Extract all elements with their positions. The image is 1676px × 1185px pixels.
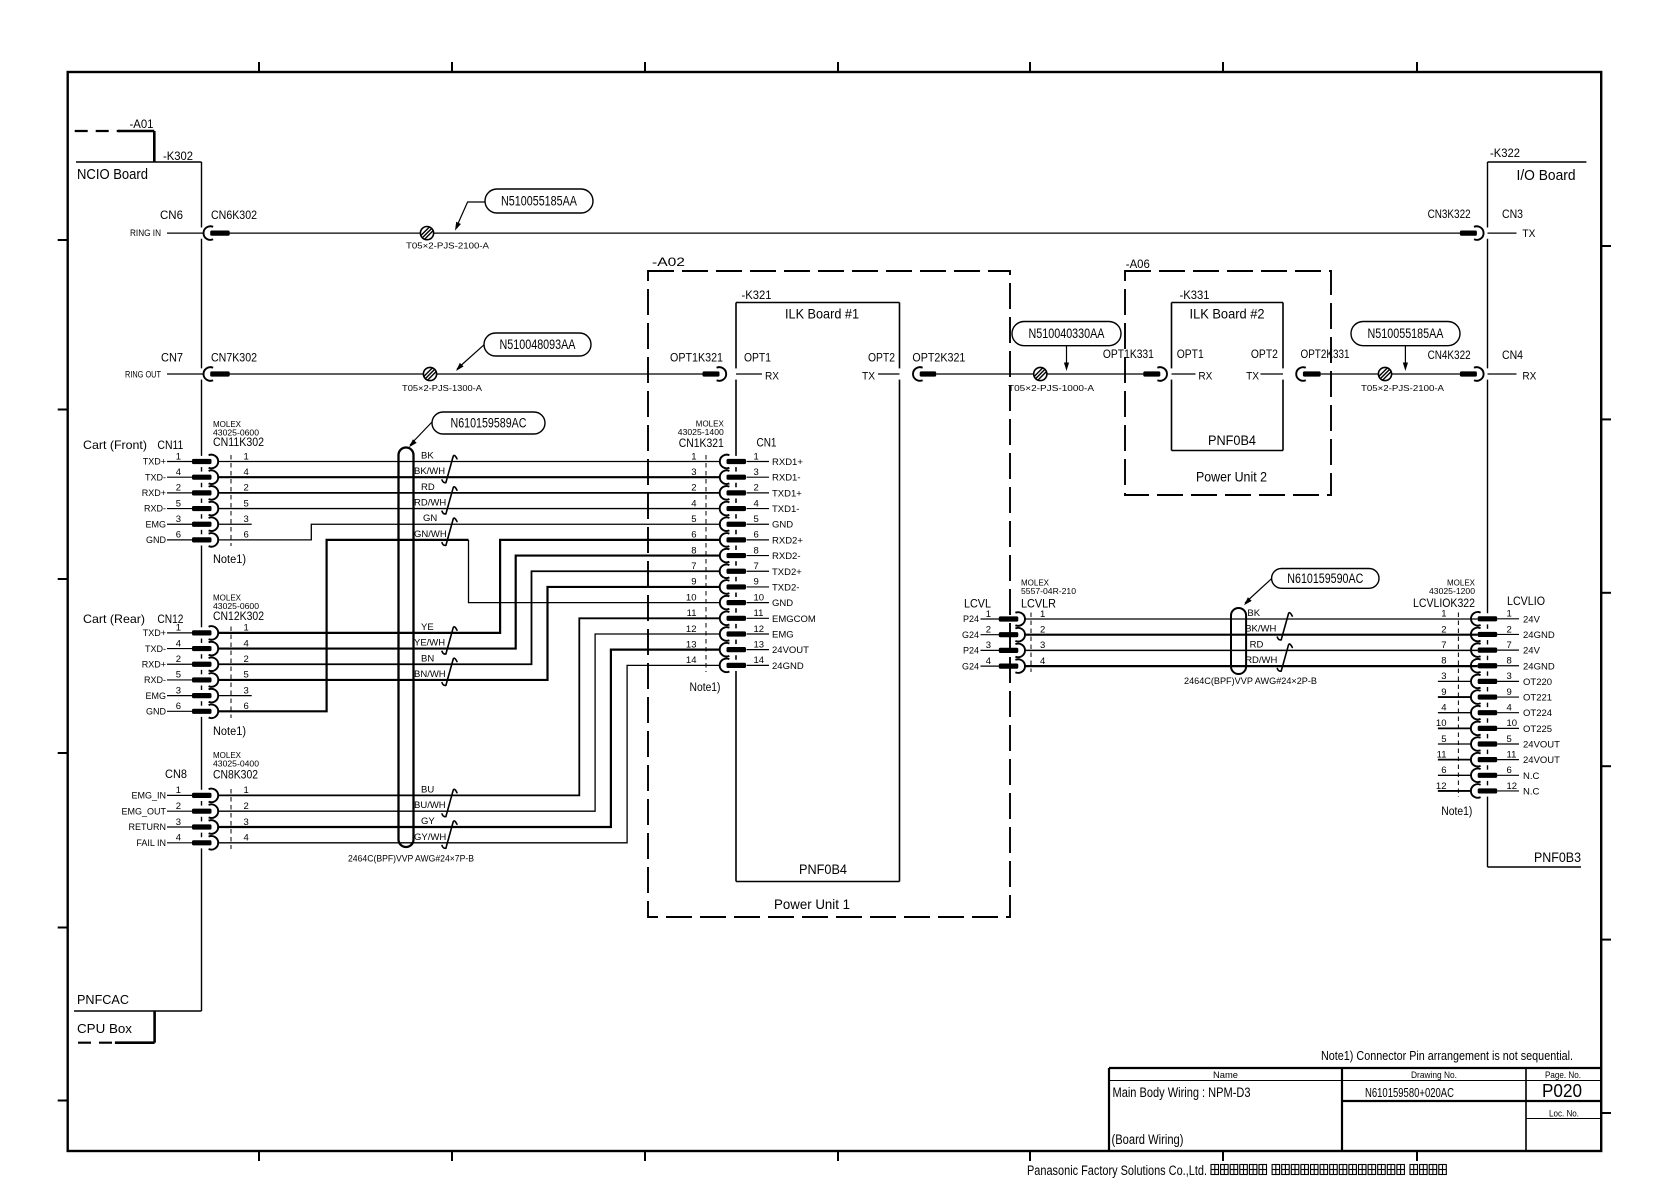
wire CN12-1 YE to CN1-6 — [218, 540, 720, 633]
svg-text:N510040330AA: N510040330AA — [1029, 326, 1105, 341]
svg-text:14: 14 — [754, 655, 765, 666]
svg-text:8: 8 — [1441, 656, 1446, 667]
connector CN1K321 / CN1 — [678, 420, 816, 695]
svg-text:43025-0600: 43025-0600 — [213, 602, 260, 611]
wire CN8-3 GY to CN1-13 — [218, 650, 720, 827]
svg-text:-K321: -K321 — [742, 290, 772, 302]
svg-text:1: 1 — [754, 451, 759, 462]
svg-text:CPU Box: CPU Box — [77, 1021, 133, 1036]
svg-text:11: 11 — [754, 608, 764, 619]
svg-text:CN3: CN3 — [1502, 207, 1523, 221]
svg-text:RX: RX — [1198, 371, 1213, 383]
svg-text:24GND: 24GND — [1523, 661, 1555, 672]
svg-text:RD: RD — [421, 482, 435, 493]
svg-text:3: 3 — [1441, 671, 1446, 682]
svg-text:BU/WH: BU/WH — [414, 800, 446, 811]
ferrite core T05x2-PJS-1000-A — [1008, 367, 1094, 393]
ILK2 OPT1 RX pin — [1172, 347, 1214, 383]
connector OPT1K331 — [1103, 347, 1167, 381]
wire LCVL-4 RD/WH — [1025, 655, 1478, 666]
svg-text:Drawing No.: Drawing No. — [1411, 1070, 1457, 1080]
wire CN11-4 BK/WH — [218, 466, 720, 477]
svg-text:EMG: EMG — [772, 629, 794, 640]
svg-text:TXD-: TXD- — [145, 472, 166, 482]
svg-text:6: 6 — [244, 530, 249, 541]
svg-text:CN11: CN11 — [157, 438, 183, 452]
svg-text:2: 2 — [754, 483, 759, 494]
connector CN7K302 — [125, 351, 257, 381]
wire ILK2 TX to CN4 — [1321, 373, 1517, 375]
wire LCVL-1 BK — [1025, 608, 1478, 619]
svg-text:BU: BU — [421, 784, 434, 795]
svg-text:PNF0B4: PNF0B4 — [799, 861, 847, 877]
wire RING OUT : CN7 to ILK1 OPT1 — [167, 373, 703, 375]
svg-text:OPT2: OPT2 — [1251, 347, 1278, 361]
svg-text:24V: 24V — [1523, 646, 1541, 657]
Power Unit 1 (-A02) dashed box — [648, 257, 1010, 917]
svg-text:T05×2-PJS-1000-A: T05×2-PJS-1000-A — [1008, 383, 1094, 393]
svg-text:Main Body Wiring : NPM-D3: Main Body Wiring : NPM-D3 — [1113, 1085, 1251, 1100]
svg-text:N510055185AA: N510055185AA — [1368, 326, 1444, 341]
svg-text:-K331: -K331 — [1180, 290, 1210, 302]
svg-text:Cart (Rear): Cart (Rear) — [83, 612, 145, 626]
cable label N610159589AC with leader — [409, 412, 545, 447]
svg-text:5: 5 — [244, 498, 249, 509]
svg-text:3: 3 — [1040, 640, 1045, 651]
svg-text:12: 12 — [686, 624, 697, 635]
svg-text:EMGCOM: EMGCOM — [772, 614, 816, 625]
svg-text:1: 1 — [1507, 609, 1512, 620]
svg-text:43025-1400: 43025-1400 — [678, 428, 725, 437]
cable label N510055185AA (right) with leader — [1351, 322, 1460, 372]
svg-text:2: 2 — [986, 625, 991, 636]
svg-text:4: 4 — [244, 833, 249, 844]
svg-text:P24: P24 — [963, 646, 979, 656]
svg-text:P020: P020 — [1542, 1081, 1582, 1101]
svg-text:Page. No.: Page. No. — [1545, 1070, 1581, 1080]
svg-text:EMG: EMG — [145, 519, 166, 529]
svg-text:2464C(BPF)VVP AWG#24×2P-B: 2464C(BPF)VVP AWG#24×2P-B — [1184, 676, 1317, 686]
twisted-pair marks (left cable) — [442, 455, 457, 848]
svg-text:GY/WH: GY/WH — [414, 832, 446, 843]
svg-text:OT225: OT225 — [1523, 724, 1552, 735]
svg-text:13: 13 — [754, 639, 765, 650]
svg-text:2: 2 — [1441, 624, 1446, 635]
svg-text:TXD+: TXD+ — [143, 457, 166, 467]
svg-text:CN7: CN7 — [161, 351, 183, 365]
connector OPT2K321 — [912, 351, 965, 381]
svg-text:9: 9 — [1507, 687, 1512, 698]
svg-text:6: 6 — [1507, 765, 1512, 776]
svg-text:7: 7 — [1507, 640, 1512, 651]
svg-text:TXD+: TXD+ — [143, 628, 166, 638]
svg-text:5557-04R-210: 5557-04R-210 — [1021, 587, 1077, 596]
note text — [1321, 1049, 1573, 1063]
svg-text:RX: RX — [1522, 371, 1537, 383]
svg-text:2: 2 — [1507, 624, 1512, 635]
svg-text:9: 9 — [1441, 687, 1446, 698]
svg-text:TX: TX — [1522, 228, 1536, 240]
svg-text:RD/WH: RD/WH — [414, 498, 446, 509]
wire CN12-3 EMG stub — [218, 695, 252, 697]
connector CN8 — [121, 751, 259, 850]
svg-text:P24: P24 — [963, 614, 979, 624]
svg-text:LCVLIO: LCVLIO — [1507, 594, 1545, 608]
svg-text:RXD-: RXD- — [144, 504, 166, 514]
wire CN8-2 BU/WH to CN1-12 — [218, 634, 720, 811]
svg-text:CN8K302: CN8K302 — [213, 770, 258, 782]
connector OPT2K331 — [1296, 347, 1350, 381]
svg-text:OPT1: OPT1 — [1177, 347, 1204, 361]
svg-text:CN4: CN4 — [1502, 348, 1523, 362]
svg-text:3: 3 — [244, 514, 249, 525]
wire CN8-1 BU to CN1-11 — [218, 618, 720, 795]
svg-text:ILK Board #1: ILK Board #1 — [785, 306, 859, 322]
cable bundle 2464C 2P capsule — [1184, 608, 1317, 686]
svg-text:2464C(BPF)VVP AWG#24×7P-B: 2464C(BPF)VVP AWG#24×7P-B — [348, 854, 474, 864]
svg-text:2: 2 — [176, 654, 181, 665]
svg-text:OPT2K331: OPT2K331 — [1301, 347, 1350, 361]
svg-text:GN: GN — [423, 513, 437, 524]
svg-text:T05×2-PJS-1300-A: T05×2-PJS-1300-A — [402, 383, 482, 393]
ferrite core T05x2-PJS-1300-A — [402, 367, 482, 393]
svg-text:4: 4 — [176, 833, 181, 844]
svg-text:RXD+: RXD+ — [142, 488, 166, 498]
wire LCVL-2 BK/WH — [1025, 624, 1478, 635]
cable label N610159590AC with leader — [1244, 569, 1379, 606]
connector LCVL / LCVLR — [962, 579, 1077, 673]
svg-text:RETURN: RETURN — [129, 822, 167, 832]
svg-text:6: 6 — [176, 701, 181, 712]
CPU Box (-A01) — [74, 119, 155, 1043]
svg-text:PNFCAC: PNFCAC — [77, 992, 129, 1007]
svg-text:10: 10 — [1507, 718, 1518, 729]
svg-text:4: 4 — [176, 638, 181, 649]
svg-text:5: 5 — [1507, 734, 1512, 745]
svg-text:1: 1 — [176, 785, 181, 796]
svg-text:TXD2+: TXD2+ — [772, 567, 802, 578]
svg-text:-A06: -A06 — [1126, 259, 1150, 271]
svg-text:5: 5 — [1441, 734, 1446, 745]
svg-text:3: 3 — [176, 685, 181, 696]
svg-text:N610159589AC: N610159589AC — [451, 416, 527, 431]
svg-text:RXD-: RXD- — [144, 675, 166, 685]
svg-text:10: 10 — [1436, 718, 1447, 729]
svg-text:TXD2-: TXD2- — [772, 582, 799, 593]
wire LCVL-3 RD — [1025, 639, 1478, 650]
svg-text:ILK Board #2: ILK Board #2 — [1190, 306, 1265, 322]
svg-text:Power Unit 2: Power Unit 2 — [1196, 469, 1267, 485]
svg-text:-K302: -K302 — [163, 151, 193, 163]
svg-text:2: 2 — [176, 483, 181, 494]
ILK2 OPT2 TX pin — [1246, 347, 1283, 383]
svg-text:4: 4 — [986, 656, 991, 667]
svg-text:Cart (Front): Cart (Front) — [83, 438, 147, 452]
svg-text:Name: Name — [1213, 1070, 1238, 1080]
svg-text:GND: GND — [772, 520, 793, 531]
svg-text:CN6: CN6 — [160, 208, 183, 222]
svg-text:1: 1 — [986, 609, 991, 620]
svg-text:RD: RD — [1250, 639, 1264, 650]
svg-text:10: 10 — [686, 592, 697, 603]
svg-text:5: 5 — [754, 514, 759, 525]
svg-text:5: 5 — [176, 498, 181, 509]
svg-text:TXD1+: TXD1+ — [772, 488, 802, 499]
board ILK Board #1 (-K321) — [736, 290, 900, 882]
connector CN12 (Cart Rear) — [83, 594, 264, 739]
connector CN4K322 — [1428, 348, 1537, 383]
svg-text:11: 11 — [1507, 749, 1517, 760]
svg-text:EMG_OUT: EMG_OUT — [121, 806, 166, 816]
svg-text:OPT1K321: OPT1K321 — [670, 351, 723, 365]
svg-text:N610159580+020AC: N610159580+020AC — [1365, 1086, 1454, 1100]
svg-text:10: 10 — [754, 592, 765, 603]
wire CN12-2 BN to CN1-7 — [218, 571, 720, 664]
wire RING IN : CN6 to CN3 — [167, 232, 1517, 234]
svg-text:5: 5 — [176, 670, 181, 681]
ILK1 OPT2 TX pin — [862, 351, 900, 383]
svg-text:Note1): Note1) — [1441, 806, 1472, 818]
svg-text:OT224: OT224 — [1523, 708, 1552, 719]
board NCIO (-K302) — [74, 151, 202, 1011]
svg-text:(Board Wiring): (Board Wiring) — [1112, 1132, 1184, 1147]
wire CN11-5 RD/WH — [218, 498, 720, 509]
svg-text:3: 3 — [986, 640, 991, 651]
wire CN8-4 GY/WH to CN1-14 — [218, 665, 720, 842]
wire CN12-4 YE/WH to CN1-8 — [218, 556, 720, 649]
svg-text:5: 5 — [691, 514, 696, 525]
ILK1 OPT1 RX pin — [736, 351, 780, 383]
svg-text:1: 1 — [176, 451, 181, 462]
svg-text:RXD2-: RXD2- — [772, 551, 801, 562]
cable label N510040330AA with leader — [1012, 322, 1121, 372]
svg-text:PNF0B4: PNF0B4 — [1208, 432, 1256, 448]
svg-text:YE/WH: YE/WH — [414, 638, 445, 649]
svg-text:24VOUT: 24VOUT — [1523, 740, 1560, 751]
svg-text:43025-1200: 43025-1200 — [1429, 587, 1476, 596]
svg-text:NCIO Board: NCIO Board — [77, 167, 148, 183]
twisted-pair marks (right cable) — [1277, 613, 1292, 672]
svg-text:8: 8 — [754, 545, 759, 556]
wire CN12-6 GND via GN/WH to CN1-10 — [218, 529, 720, 711]
svg-text:6: 6 — [176, 530, 181, 541]
svg-text:RXD2+: RXD2+ — [772, 535, 803, 546]
svg-text:CN1: CN1 — [757, 436, 777, 450]
svg-text:3: 3 — [244, 685, 249, 696]
connector CN11 (Cart Front) — [83, 420, 264, 566]
svg-text:CN1K321: CN1K321 — [679, 438, 724, 450]
svg-text:4: 4 — [754, 498, 759, 509]
svg-text:OPT1K331: OPT1K331 — [1103, 347, 1154, 361]
svg-text:G24: G24 — [962, 630, 979, 640]
connector LCVLIOK322 / LCVLIO — [1413, 579, 1560, 819]
svg-text:6: 6 — [754, 530, 759, 541]
svg-text:9: 9 — [754, 577, 759, 588]
svg-text:12: 12 — [754, 624, 765, 635]
wire CN11-1 BK — [218, 451, 720, 462]
svg-text:EMG: EMG — [145, 691, 166, 701]
connector CN6K302 — [130, 208, 257, 240]
wire CN11-3 EMG stub — [218, 523, 252, 525]
svg-text:2: 2 — [176, 801, 181, 812]
cable bundle 2464C 7P capsule — [348, 448, 474, 864]
wire CN11-6 GND to CN1-5 GN — [218, 513, 720, 540]
svg-text:RING OUT: RING OUT — [125, 370, 161, 380]
svg-text:N610159590AC: N610159590AC — [1287, 571, 1363, 586]
connector OPT1K321 — [670, 351, 726, 381]
svg-text:TXD1-: TXD1- — [772, 504, 799, 515]
svg-text:1: 1 — [1441, 609, 1446, 620]
svg-text:14: 14 — [686, 655, 697, 666]
svg-text:4: 4 — [691, 498, 696, 509]
svg-text:CN7K302: CN7K302 — [211, 351, 257, 365]
svg-text:7: 7 — [1441, 640, 1446, 651]
Power Unit 2 (-A06) dashed box — [1125, 259, 1331, 495]
svg-text:Note1): Note1) — [690, 682, 721, 694]
svg-text:PNF0B3: PNF0B3 — [1534, 850, 1581, 865]
svg-text:1: 1 — [244, 451, 249, 462]
svg-text:OPT2K321: OPT2K321 — [912, 351, 965, 365]
svg-text:Note1): Note1) — [213, 554, 246, 566]
svg-text:YE: YE — [421, 622, 434, 633]
svg-text:-K322: -K322 — [1490, 148, 1520, 160]
svg-text:Note1): Note1) — [213, 726, 246, 738]
cable label N510055185AA (top) with leader — [455, 189, 593, 231]
svg-text:3: 3 — [754, 467, 759, 478]
svg-text:Loc. No.: Loc. No. — [1549, 1109, 1579, 1119]
svg-text:-A01: -A01 — [130, 119, 154, 131]
svg-text:Panasonic Factory Solutions Co: Panasonic Factory Solutions Co.,Ltd. — [1027, 1163, 1207, 1178]
svg-text:CN3K322: CN3K322 — [1428, 207, 1471, 221]
svg-text:6: 6 — [1441, 765, 1446, 776]
svg-text:GN/WH: GN/WH — [414, 529, 447, 540]
svg-text:GY: GY — [421, 816, 435, 827]
svg-text:CN8: CN8 — [165, 767, 187, 781]
svg-text:RXD1-: RXD1- — [772, 473, 801, 484]
svg-text:24VOUT: 24VOUT — [1523, 755, 1560, 766]
svg-text:T05×2-PJS-2100-A: T05×2-PJS-2100-A — [406, 241, 489, 251]
svg-text:G24: G24 — [962, 661, 979, 671]
svg-text:24VOUT: 24VOUT — [772, 645, 809, 656]
svg-text:OT220: OT220 — [1523, 677, 1552, 688]
svg-text:CN4K322: CN4K322 — [1428, 348, 1471, 362]
svg-text:43025-0400: 43025-0400 — [213, 760, 260, 769]
svg-text:RXD1+: RXD1+ — [772, 457, 803, 468]
svg-text:BN: BN — [421, 653, 434, 664]
svg-text:8: 8 — [1507, 656, 1512, 667]
svg-text:BN/WH: BN/WH — [414, 669, 446, 680]
svg-text:RXD+: RXD+ — [142, 659, 166, 669]
svg-text:BK/WH: BK/WH — [414, 466, 445, 477]
svg-text:Note1) Connector Pin arrangeme: Note1) Connector Pin arrangement is not … — [1321, 1049, 1573, 1063]
svg-text:CN6K302: CN6K302 — [211, 208, 257, 222]
ferrite core T05x2-PJS-2100-A (right) — [1361, 367, 1444, 393]
svg-text:1: 1 — [691, 451, 696, 462]
svg-text:TX: TX — [1246, 371, 1260, 383]
title block — [1109, 1068, 1601, 1151]
svg-text:EMG_IN: EMG_IN — [131, 791, 166, 801]
svg-text:7: 7 — [754, 561, 759, 572]
svg-text:4: 4 — [1507, 703, 1512, 714]
svg-text:N510048093AA: N510048093AA — [500, 337, 576, 352]
svg-text:N.C: N.C — [1523, 771, 1540, 782]
svg-text:3: 3 — [176, 817, 181, 828]
svg-text:RING IN: RING IN — [130, 228, 161, 238]
svg-text:1: 1 — [176, 623, 181, 634]
svg-text:RX: RX — [765, 371, 780, 383]
svg-text:-A02: -A02 — [652, 257, 685, 269]
svg-text:T05×2-PJS-2100-A: T05×2-PJS-2100-A — [1361, 383, 1444, 393]
wire CN12-5 BN/WH to CN1-9 — [218, 587, 720, 680]
svg-text:CN11K302: CN11K302 — [213, 437, 264, 449]
svg-text:N.C: N.C — [1523, 786, 1540, 797]
svg-text:12: 12 — [1436, 781, 1447, 792]
svg-text:3: 3 — [1507, 671, 1512, 682]
svg-text:GND: GND — [146, 535, 167, 545]
svg-text:24V: 24V — [1523, 614, 1541, 625]
svg-text:OPT2: OPT2 — [868, 351, 895, 365]
svg-text:RD/WH: RD/WH — [1245, 655, 1277, 666]
svg-text:TXD-: TXD- — [145, 644, 166, 654]
svg-text:12: 12 — [1507, 781, 1518, 792]
svg-text:LCVLR: LCVLR — [1021, 599, 1056, 611]
svg-text:24GND: 24GND — [772, 661, 804, 672]
board ILK Board #2 (-K331) — [1172, 290, 1284, 451]
svg-text:GND: GND — [772, 598, 793, 609]
svg-text:BK/WH: BK/WH — [1245, 624, 1276, 635]
wire ILK1 TX to ILK2 RX — [936, 373, 1143, 375]
svg-text:4: 4 — [176, 467, 181, 478]
svg-text:I/O Board: I/O Board — [1517, 168, 1576, 184]
wire CN11-2 RD — [218, 482, 720, 493]
svg-text:3: 3 — [176, 514, 181, 525]
svg-text:BK: BK — [1247, 608, 1260, 619]
svg-text:2: 2 — [244, 801, 249, 812]
connector CN3K322 — [1428, 207, 1536, 240]
cable label N510048093AA with leader — [456, 333, 591, 371]
svg-text:1: 1 — [1040, 609, 1045, 620]
svg-text:CN12K302: CN12K302 — [213, 611, 264, 623]
svg-text:TX: TX — [862, 371, 876, 383]
ferrite core T05x2-PJS-2100-A (left) — [406, 227, 489, 251]
svg-text:GND: GND — [146, 707, 167, 717]
svg-text:FAIL IN: FAIL IN — [136, 838, 166, 848]
svg-text:24GND: 24GND — [1523, 630, 1555, 641]
svg-text:OT221: OT221 — [1523, 693, 1552, 704]
svg-text:OPT1: OPT1 — [744, 351, 771, 365]
svg-text:N510055185AA: N510055185AA — [501, 194, 577, 209]
svg-text:BK: BK — [421, 451, 434, 462]
board I/O (-K322) — [1488, 148, 1587, 867]
footer company name — [1027, 1163, 1446, 1178]
svg-text:Power Unit 1: Power Unit 1 — [774, 896, 850, 912]
svg-text:11: 11 — [1437, 749, 1447, 760]
svg-text:4: 4 — [1441, 703, 1446, 714]
